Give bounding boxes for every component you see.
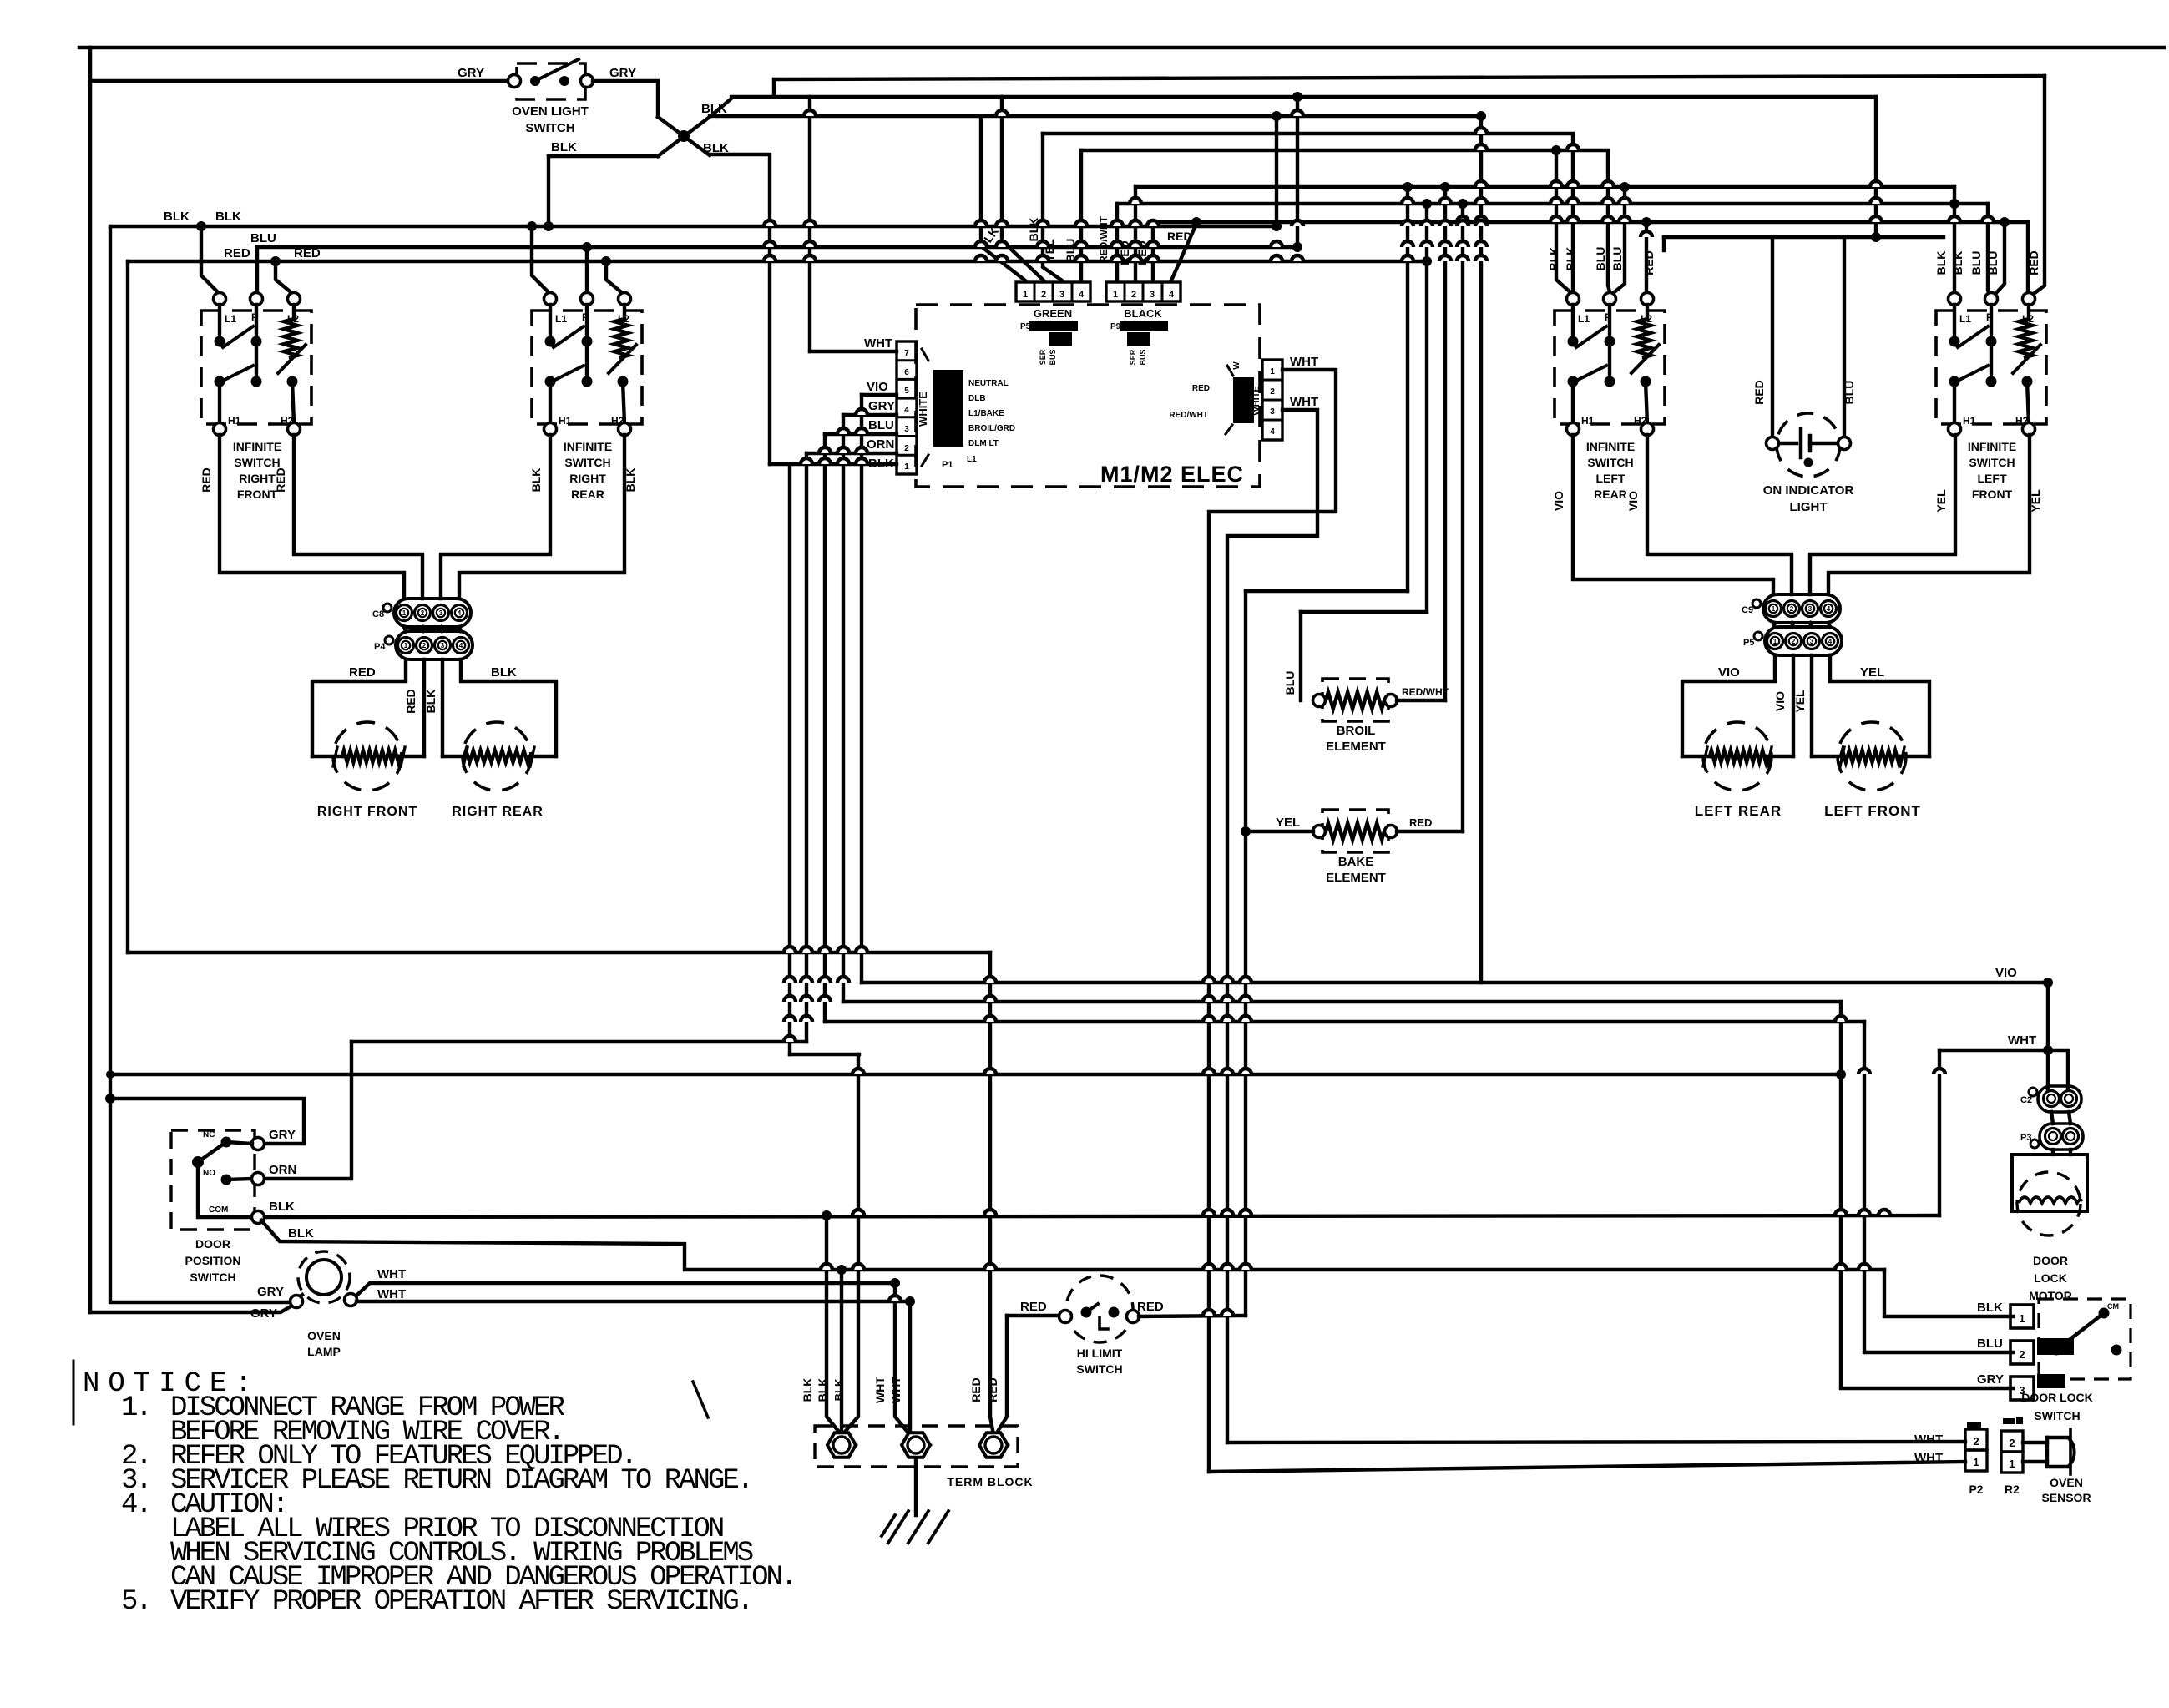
svg-text:RED: RED [1642,250,1656,275]
wire LR H2 to C2pin [1647,435,1792,594]
label VIO right [1995,966,2017,980]
svg-text:BLU: BLU [1986,251,2000,275]
oven lamp caption [307,1329,341,1358]
wire bake right [1397,830,1463,833]
term block dashed box [815,1426,1018,1467]
label RED hilimit left [1020,1300,1047,1314]
connector P9 BLACK boxes [1106,282,1181,301]
P5 tag [1020,322,1057,366]
vertical BLK x922 [710,154,770,464]
svg-text:GRY: GRY [868,399,895,413]
svg-text:YEL: YEL [1793,690,1807,713]
X junction diagonal NW-SE [658,117,710,155]
svg-text:SWITCH: SWITCH [234,456,280,469]
bake coil [1326,823,1384,840]
junction dot row1287 right [1836,1069,1846,1079]
ground symbol [882,1511,948,1543]
svg-text:WHT: WHT [377,1267,406,1281]
element right front coil [312,747,424,766]
vertical BLK term b [840,1270,843,1431]
GREEN label [1034,307,1072,320]
wire row1248 ORN [351,1040,806,1043]
lead GREEN pin3 [1043,134,1062,280]
svg-text:RED: RED [274,467,287,493]
hi limit dashed circle [1066,1276,1133,1342]
X junction diagonal SW-NE [658,99,731,156]
wire BLK stub down to bus [544,156,554,231]
svg-text:YEL: YEL [1276,816,1300,830]
wire LF H1 to C3 [1810,435,1955,594]
vertical x1554 upper [1292,92,1302,247]
junction dot term a [822,1210,832,1220]
door NO contact [203,1169,252,1185]
svg-text:4: 4 [1270,427,1275,437]
wire row y160 [1043,134,1573,292]
svg-text:CM: CM [2107,1302,2119,1311]
svg-text:2: 2 [904,444,909,453]
wire WHT row1728 [1227,1442,1965,1443]
oven light switch caption [512,104,589,135]
element left front coil [1812,747,1929,766]
label BLK loop right [491,665,517,680]
connector P (left elements lower) [1743,627,1842,655]
svg-text:GRY: GRY [458,66,484,80]
infinite switch right rear [532,293,642,502]
label RED indicator [1752,380,1766,405]
oven light switch contacts [530,59,579,86]
door lock switch blobs [2037,1302,2119,1388]
bake right pin [1385,826,1398,838]
svg-text:WHT: WHT [873,1377,887,1403]
lead GREEN pin4 [1079,150,1083,280]
label WHT sensor bot [1914,1451,1943,1465]
svg-text:3: 3 [904,425,909,434]
svg-text:ELEMENT: ELEMENT [1326,740,1386,754]
svg-text:SWITCH: SWITCH [1587,456,1633,469]
connector P1 7pin boxes [897,341,917,474]
svg-text:VIO: VIO [1626,491,1640,511]
label VIO LR H1 [1552,491,1565,511]
door lock motor caption [2029,1254,2072,1302]
label GRY door NC [269,1128,296,1142]
wire RED hilimit left [1007,1314,1059,1317]
P2 funnel blob [1226,366,1254,434]
wires C to P left [1773,623,1830,627]
wire row y266 [1153,220,2028,224]
svg-text:1: 1 [1270,367,1275,376]
svg-text:P4: P4 [374,642,386,652]
vertical BLU to door lock sw [1864,1022,2013,1352]
lead BLACK pin3 [1151,222,1155,280]
door COM path [198,1162,251,1217]
junction dots misc [105,111,2053,1306]
wire row1287 GRY doorswitch [110,1073,1841,1076]
connector P4 (right elements lower) [374,631,473,659]
vertical BLK to term1 [846,1054,858,1431]
svg-text:BLK: BLK [529,468,543,493]
wire RR H2 to CB4 [459,435,624,599]
svg-text:1: 1 [1973,1456,1979,1468]
wire indicator left end stub [1662,237,1666,250]
big loop row244 drop [1425,204,1428,612]
svg-text:2: 2 [1973,1435,1979,1448]
oven lamp outer dashed circle [298,1251,350,1303]
door NO pin [252,1173,265,1185]
svg-text:RED: RED [1409,816,1432,829]
connector P2 4pin boxes [1262,360,1282,440]
vertical VIO drop to C2 [2046,983,2050,1089]
svg-text:BLU: BLU [1977,1337,2003,1351]
caption right rear [452,805,544,819]
svg-text:3: 3 [1808,605,1813,613]
indicator caption [1763,483,1854,514]
svg-text:4: 4 [904,406,909,415]
hi limit caption [1076,1347,1122,1376]
wire WHT L6 [356,1300,910,1303]
label GRY lamp lower [250,1306,277,1321]
svg-text:OVEN LIGHT: OVEN LIGHT [512,104,589,119]
svg-text:YEL: YEL [1934,489,1948,513]
vertical BLK bundle [788,464,791,1054]
term block terminal 3 [979,1433,1008,1457]
term block caption [947,1475,1033,1488]
oven lamp left pin [291,1296,303,1308]
label BLK slant GREEN1 [976,225,1001,252]
svg-text:1: 1 [2019,1312,2025,1325]
wire row y93 feed from row116 [772,79,776,97]
svg-text:H1: H1 [1581,415,1595,427]
wires CB to P4 [404,627,461,631]
svg-text:BLK: BLK [624,468,637,493]
label REDWHT rot [1098,215,1110,263]
door lock motor body [2012,1155,2087,1236]
lead BLACK pin1 [1115,204,1119,280]
notice text block [83,1368,795,1618]
label GRY right of oven light switch [609,66,636,80]
svg-text:L1/BAKE: L1/BAKE [968,409,1004,418]
junction dot VIO WHT [2043,1045,2053,1055]
P1 side texts [942,379,1015,470]
wire row y93 right drop [2031,76,2045,296]
svg-text:FRONT: FRONT [1972,488,2013,501]
svg-text:POSITION: POSITION [185,1254,241,1267]
svg-text:RIGHT REAR: RIGHT REAR [452,805,544,819]
ground wire [914,1459,918,1515]
svg-text:WHITE: WHITE [917,392,929,427]
svg-text:1: 1 [404,642,408,649]
svg-text:L1: L1 [555,313,567,325]
label YEL rot GREEN3 [1043,239,1056,262]
svg-text:VERIFY PROPER OPERATION AFTER: VERIFY PROPER OPERATION AFTER SERVICING. [170,1586,751,1618]
svg-text:C9: C9 [1742,605,1753,615]
svg-text:RED/WHT: RED/WHT [1402,686,1449,698]
svg-text:1: 1 [1023,290,1028,300]
svg-text:BUS: BUS [1049,349,1057,365]
svg-text:5.: 5. [121,1586,150,1618]
element right front circle [333,722,402,791]
svg-text:BLK: BLK [551,140,577,154]
BLACK blob [1120,321,1168,346]
bake caption [1326,855,1386,885]
oven sensor body [2047,1429,2075,1474]
wire row1200 GRY [843,1000,1841,1003]
svg-text:BLK: BLK [816,1378,829,1402]
svg-text:2: 2 [1792,638,1796,645]
wire BLK L4 [261,1220,1884,1270]
wire x2247 drop to indicator row [1874,97,1878,237]
border left bottom tick [73,1361,75,1424]
X junction dot [678,130,690,142]
label RED loop left [349,665,376,680]
svg-text:RED: RED [224,246,250,260]
element right rear circle [463,722,531,791]
label BLK rot [424,690,437,714]
svg-text:DOOR LOCK: DOOR LOCK [2021,1391,2093,1404]
svg-text:H1: H1 [559,415,572,427]
element left front circle [1838,722,1906,791]
vertical VIO bundle [860,395,863,983]
svg-text:P5: P5 [1743,638,1754,648]
svg-text:OVEN: OVEN [307,1329,341,1342]
svg-text:ELEMENT: ELEMENT [1326,871,1386,885]
svg-text:BLK: BLK [832,1378,845,1401]
svg-text:INFINITE: INFINITE [233,440,281,453]
label BLU doorlock sw [1977,1337,2003,1351]
svg-text:BLK: BLK [1934,251,1948,275]
door COM pin [209,1205,265,1224]
label WHT P1 [864,336,892,351]
svg-text:P9: P9 [1110,322,1121,331]
svg-text:SWITCH: SWITCH [1076,1362,1122,1376]
svg-text:RED: RED [1137,1300,1164,1314]
svg-text:BLU: BLU [1610,247,1624,271]
svg-text:4: 4 [458,609,462,617]
svg-text:2: 2 [1790,605,1794,613]
door arm [192,1142,226,1168]
svg-text:BLU: BLU [1843,381,1856,405]
wire BLU bus [257,245,1297,249]
wire row y224 drop to LF L1 [1954,187,1955,296]
svg-text:COM: COM [209,1205,228,1215]
label RED bus 1 [224,246,250,260]
caption right front [317,805,417,819]
label BLK LF L1 [1934,251,1964,275]
svg-text:L1: L1 [225,313,236,325]
svg-text:WHT: WHT [1914,1451,1943,1465]
svg-text:BLK: BLK [424,690,437,714]
connector P3 oval [2020,1124,2083,1150]
label RED bus 2 [294,246,321,260]
label BLK BLK LR L1 [1547,247,1577,271]
vertical BLK to door lock pin1 [1884,1270,2013,1316]
svg-text:RIGHT: RIGHT [239,472,276,485]
label RED right drop [2027,250,2040,275]
connector P5 GREEN boxes [1016,282,1090,301]
svg-text:BLK: BLK [1564,247,1577,271]
svg-text:TERM BLOCK: TERM BLOCK [947,1475,1033,1488]
svg-text:BLU: BLU [1969,251,1983,275]
lead GREEN pin2 [1002,97,1044,280]
svg-text:1: 1 [904,462,909,472]
svg-text:3: 3 [1059,290,1064,300]
svg-text:RED: RED [1020,1300,1047,1314]
svg-text:NO: NO [203,1169,215,1178]
wire ORN door [265,1042,351,1179]
svg-text:BLK: BLK [215,210,241,224]
hi limit left pin [1059,1311,1072,1323]
svg-text:BROIL/GRD: BROIL/GRD [968,424,1015,433]
label YEL rot left [1793,690,1807,713]
wire row1224 BLU [825,1020,1864,1023]
wire VIO to pin5 [862,393,897,397]
svg-text:L1: L1 [967,455,977,464]
wires C2 to P3 [2051,1112,2070,1124]
svg-text:3: 3 [441,642,445,649]
svg-text:RIGHT FRONT: RIGHT FRONT [317,805,417,819]
caption left front [1824,803,1921,819]
oven light switch left pin [508,75,521,88]
svg-text:BLK: BLK [1977,1301,2003,1315]
svg-text:WHT: WHT [1290,355,1318,369]
labels RED term [969,1377,999,1402]
stray mark near notice [693,1382,708,1417]
indicator dot [1804,458,1813,467]
svg-text:6: 6 [904,368,909,377]
svg-text:WHT: WHT [1290,395,1318,409]
wire RED hilimit right [1139,1316,1246,1316]
indicator right pin [1838,437,1851,450]
wire LR L1 second lead [1551,145,1571,293]
svg-text:BLK: BLK [288,1226,314,1241]
svg-text:P3: P3 [2020,1133,2031,1143]
svg-text:C8: C8 [372,609,384,619]
svg-text:GRY: GRY [250,1306,277,1321]
wire RF H2 to CB2 [294,435,422,599]
wire WHT to pin7 [810,350,897,353]
label BLK bus 2 [215,210,241,224]
bake element dashed box [1322,810,1388,852]
lead BLACK pin2 [1134,187,1137,280]
svg-text:GREEN: GREEN [1034,307,1072,320]
wire GRY to pin4 [843,413,897,417]
vertical GRY to door lock sw [1841,1002,2013,1388]
door lock switch pin boxes [2010,1305,2034,1400]
wire BLU to pin3 [825,432,897,436]
svg-text:H2: H2 [611,415,624,427]
svg-text:RED/WHT: RED/WHT [1169,411,1208,420]
svg-text:SWITCH: SWITCH [525,121,574,135]
border left line [88,48,93,1312]
broil right pin [1385,695,1398,707]
label VIO LR H2 [1626,491,1640,511]
svg-text:BLU: BLU [1283,671,1297,695]
svg-text:ORN: ORN [867,437,894,452]
label WHT pin1 [1290,355,1318,369]
svg-text:4: 4 [1079,290,1084,300]
wire row y266 right drop LF L2 [2028,222,2030,296]
svg-text:WHT: WHT [864,336,892,351]
wire GRY switch to corner [593,81,658,117]
wire row y244 [1117,202,1988,205]
svg-text:2: 2 [1131,290,1136,300]
wire broil right [1397,699,1445,702]
indicator battery symbol [1779,429,1838,457]
label WHT L5 [377,1267,406,1281]
indicator left pin [1767,437,1779,450]
svg-text:INFINITE: INFINITE [564,440,612,453]
wire indicator right leg [1843,237,1846,437]
svg-text:GRY: GRY [1977,1372,2004,1387]
caption left rear [1695,803,1782,819]
svg-text:3: 3 [1810,638,1814,645]
svg-text:SWITCH: SWITCH [2034,1409,2080,1422]
svg-text:VIO: VIO [1773,691,1787,711]
term block terminal 1 [827,1433,856,1457]
svg-text:H1: H1 [1963,415,1976,427]
svg-text:WHT: WHT [377,1287,406,1301]
svg-text:BLU: BLU [868,418,894,432]
svg-text:P5: P5 [1020,322,1031,331]
junction dot x2247 [1871,232,1881,242]
wire GRY left border to oven light switch [90,79,508,83]
big loop row224 drop [1406,187,1409,591]
svg-text:BLU: BLU [1594,247,1607,271]
vertical WHT term b [908,1301,912,1431]
svg-text:VIO: VIO [1718,665,1740,680]
P1 funnel blob [922,349,963,466]
tap RED to RR L2 [601,256,624,295]
vertical WHT term a [895,1283,907,1431]
wire RF H1 to CB1 [220,435,404,599]
label RED BLACK4 [1167,230,1192,243]
label BLU indicator [1843,381,1856,405]
label BLK upper right of X [701,102,727,116]
svg-text:INFINITE: INFINITE [1586,440,1635,453]
svg-text:LOCK: LOCK [2034,1271,2067,1285]
label RED rot BLACK2 [1118,240,1131,265]
connector P2 boxes [1965,1422,1987,1496]
element left rear coil [1682,747,1793,766]
svg-text:BUS: BUS [1139,349,1147,365]
svg-text:REAR: REAR [1594,488,1627,501]
wire BLK to pin1 [770,462,897,466]
wire crossing bumps [764,110,1994,1316]
svg-text:LAMP: LAMP [307,1345,341,1358]
wire RR H1 to CB3 [441,435,550,599]
vertical GRY bundle [842,415,845,1002]
element right rear coil [442,747,556,766]
svg-text:2: 2 [422,642,427,649]
wire WHT row1258 [1939,1050,2068,1089]
svg-text:RED: RED [1192,384,1210,393]
wire LR L2 drop [1641,217,1651,294]
svg-text:L1: L1 [1578,313,1590,325]
label BLK bus 1 [164,210,190,224]
svg-text:ON INDICATOR: ON INDICATOR [1763,483,1854,498]
wire BLK bus [110,225,1277,228]
wire row1141 RED [128,951,990,954]
svg-text:BLK: BLK [701,102,727,116]
label BLK P1 [868,457,894,471]
label WHT sensor top [1914,1433,1943,1447]
P2 WHITE rot label [1251,386,1261,415]
oven sensor caption [2041,1476,2091,1504]
wire row y224 [1135,185,1954,189]
broil left pin [1313,695,1326,707]
broil element dashed box [1322,679,1388,721]
label RED/WHT broil [1402,686,1449,698]
svg-text:LIGHT: LIGHT [1790,500,1828,514]
